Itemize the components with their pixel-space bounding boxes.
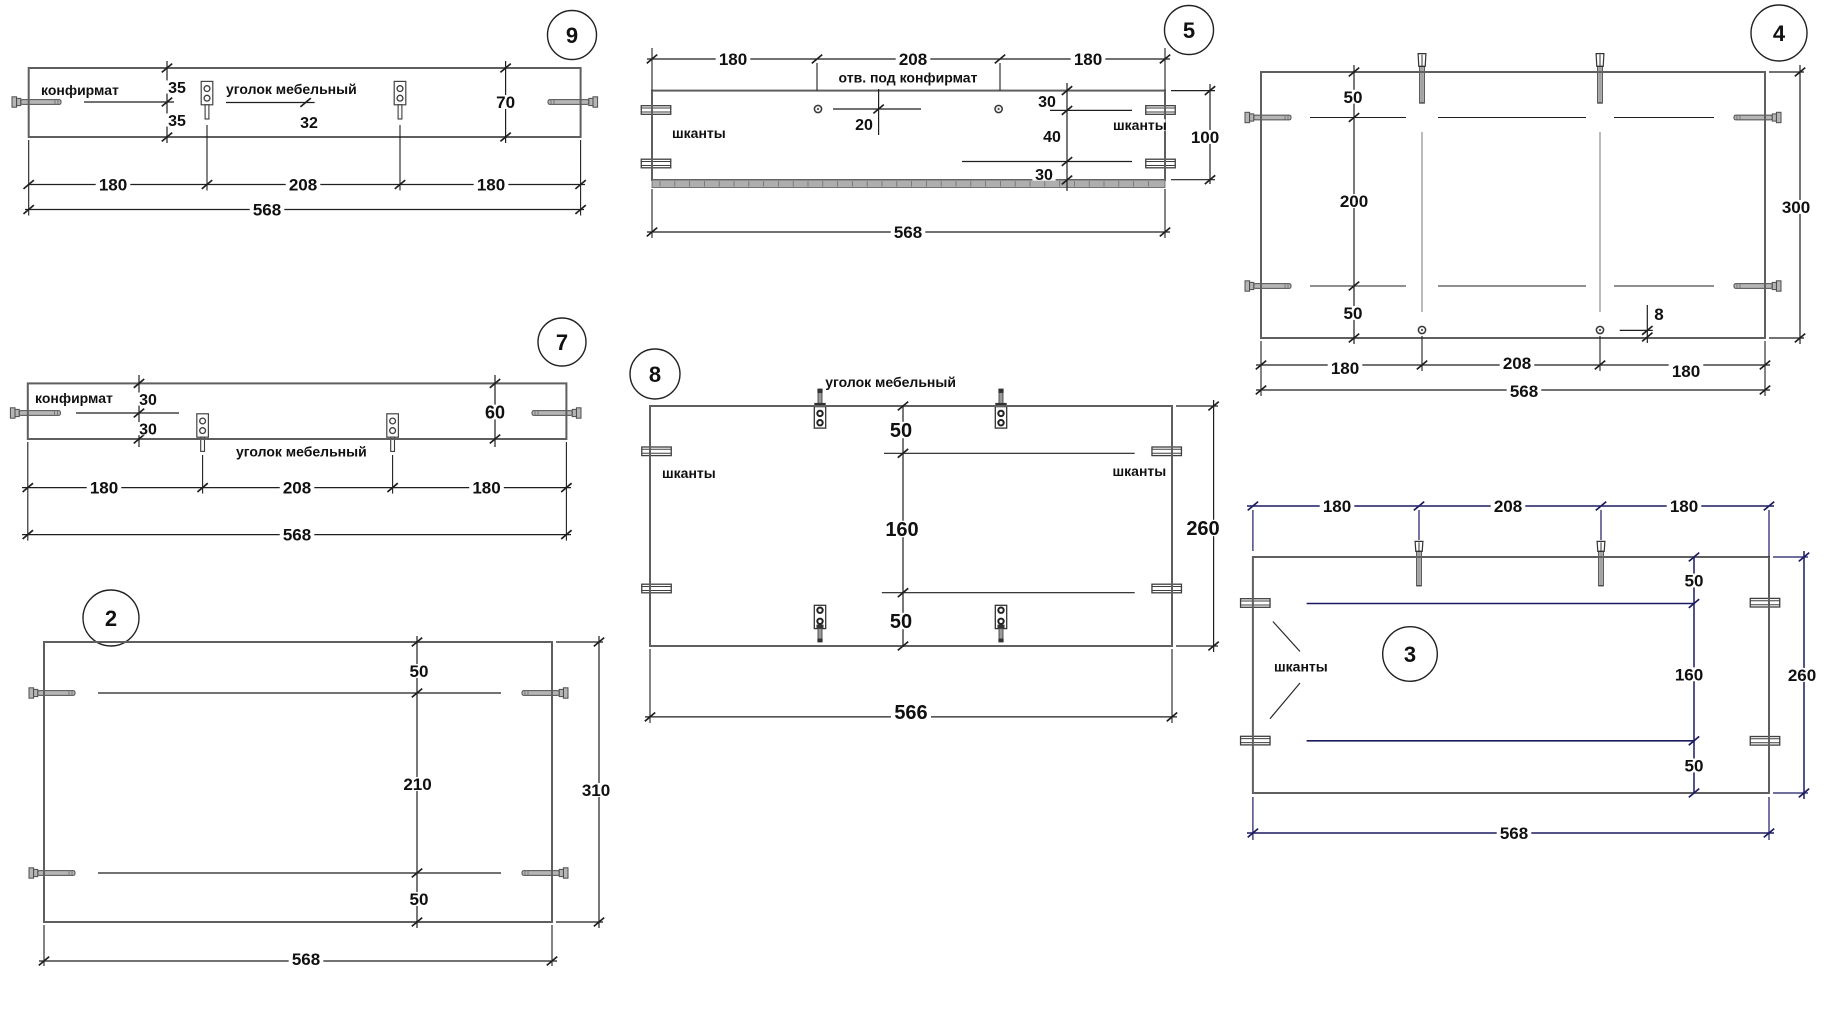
svg-text:50: 50 <box>1685 572 1704 591</box>
svg-text:100: 100 <box>1191 128 1219 147</box>
svg-text:40: 40 <box>1043 129 1061 146</box>
svg-text:9: 9 <box>566 23 578 48</box>
svg-text:шканты: шканты <box>672 125 726 141</box>
svg-text:шканты: шканты <box>1274 658 1328 674</box>
svg-text:180: 180 <box>1670 497 1698 516</box>
svg-text:300: 300 <box>1782 198 1810 217</box>
svg-text:260: 260 <box>1788 666 1816 685</box>
svg-text:180: 180 <box>477 176 505 195</box>
svg-text:отв. под конфирмат: отв. под конфирмат <box>839 70 978 86</box>
svg-text:260: 260 <box>1186 518 1219 540</box>
svg-text:50: 50 <box>1685 757 1704 776</box>
svg-text:4: 4 <box>1773 21 1786 46</box>
svg-text:208: 208 <box>1494 497 1522 516</box>
svg-text:160: 160 <box>885 519 918 541</box>
svg-text:210: 210 <box>403 775 431 794</box>
svg-text:20: 20 <box>855 117 873 134</box>
svg-text:50: 50 <box>410 662 429 681</box>
svg-text:180: 180 <box>99 176 127 195</box>
svg-text:конфирмат: конфирмат <box>35 390 113 406</box>
svg-text:70: 70 <box>496 93 515 112</box>
svg-text:568: 568 <box>283 526 311 545</box>
svg-text:566: 566 <box>894 702 927 724</box>
svg-text:30: 30 <box>1038 94 1056 111</box>
svg-text:180: 180 <box>719 50 747 69</box>
svg-text:568: 568 <box>253 201 281 220</box>
svg-text:8: 8 <box>649 362 661 387</box>
svg-text:конфирмат: конфирмат <box>41 82 119 98</box>
svg-text:200: 200 <box>1340 192 1368 211</box>
svg-text:180: 180 <box>1331 359 1359 378</box>
svg-text:30: 30 <box>1035 167 1053 184</box>
svg-text:60: 60 <box>485 402 505 422</box>
svg-text:уголок мебельный: уголок мебельный <box>825 374 956 390</box>
svg-text:шканты: шканты <box>1113 117 1167 133</box>
svg-text:208: 208 <box>899 50 927 69</box>
svg-text:50: 50 <box>1344 304 1363 323</box>
svg-text:5: 5 <box>1183 18 1195 43</box>
svg-text:208: 208 <box>1503 354 1531 373</box>
svg-text:2: 2 <box>105 606 117 631</box>
svg-text:30: 30 <box>139 421 157 438</box>
svg-text:160: 160 <box>1675 665 1703 684</box>
svg-text:50: 50 <box>890 420 912 442</box>
svg-text:7: 7 <box>556 330 568 355</box>
svg-text:3: 3 <box>1404 642 1416 667</box>
svg-text:8: 8 <box>1654 305 1663 324</box>
svg-text:208: 208 <box>283 479 311 498</box>
svg-text:уголок мебельный: уголок мебельный <box>236 444 367 460</box>
svg-text:32: 32 <box>300 115 318 132</box>
svg-text:208: 208 <box>289 176 317 195</box>
svg-text:35: 35 <box>168 80 186 97</box>
svg-text:568: 568 <box>1510 382 1538 401</box>
svg-text:35: 35 <box>168 113 186 130</box>
svg-text:уголок мебельный: уголок мебельный <box>226 81 357 97</box>
svg-text:50: 50 <box>890 611 912 633</box>
svg-text:180: 180 <box>90 479 118 498</box>
svg-text:180: 180 <box>1672 362 1700 381</box>
svg-text:30: 30 <box>139 392 157 409</box>
svg-text:шканты: шканты <box>1113 463 1167 479</box>
svg-text:180: 180 <box>1323 497 1351 516</box>
svg-text:568: 568 <box>1500 824 1528 843</box>
svg-text:180: 180 <box>472 479 500 498</box>
svg-text:310: 310 <box>582 781 610 800</box>
svg-text:568: 568 <box>894 223 922 242</box>
svg-text:шканты: шканты <box>662 465 716 481</box>
svg-text:568: 568 <box>292 950 320 969</box>
svg-text:50: 50 <box>1344 88 1363 107</box>
svg-text:180: 180 <box>1074 50 1102 69</box>
svg-text:50: 50 <box>410 890 429 909</box>
